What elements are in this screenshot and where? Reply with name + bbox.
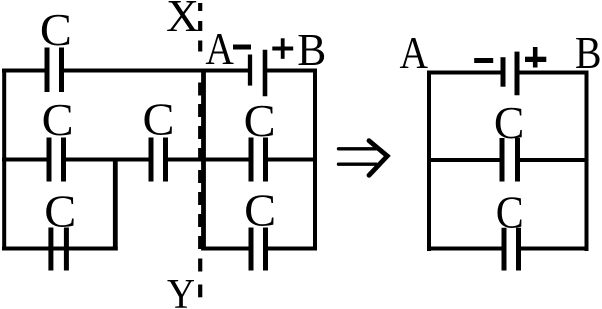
svg-text:C: C <box>44 186 76 237</box>
svg-text:C: C <box>244 95 276 146</box>
svg-text:A: A <box>205 23 234 74</box>
svg-text:C: C <box>496 187 524 238</box>
svg-text:C: C <box>143 93 175 144</box>
svg-text:X: X <box>166 0 199 41</box>
svg-text:C: C <box>40 4 72 55</box>
svg-text:B: B <box>575 27 602 78</box>
svg-text:B: B <box>297 24 326 75</box>
svg-text:Y: Y <box>167 271 195 309</box>
svg-text:C: C <box>42 94 74 145</box>
svg-text:C: C <box>244 185 276 236</box>
svg-text:C: C <box>494 97 525 148</box>
svg-text:A: A <box>400 27 429 78</box>
